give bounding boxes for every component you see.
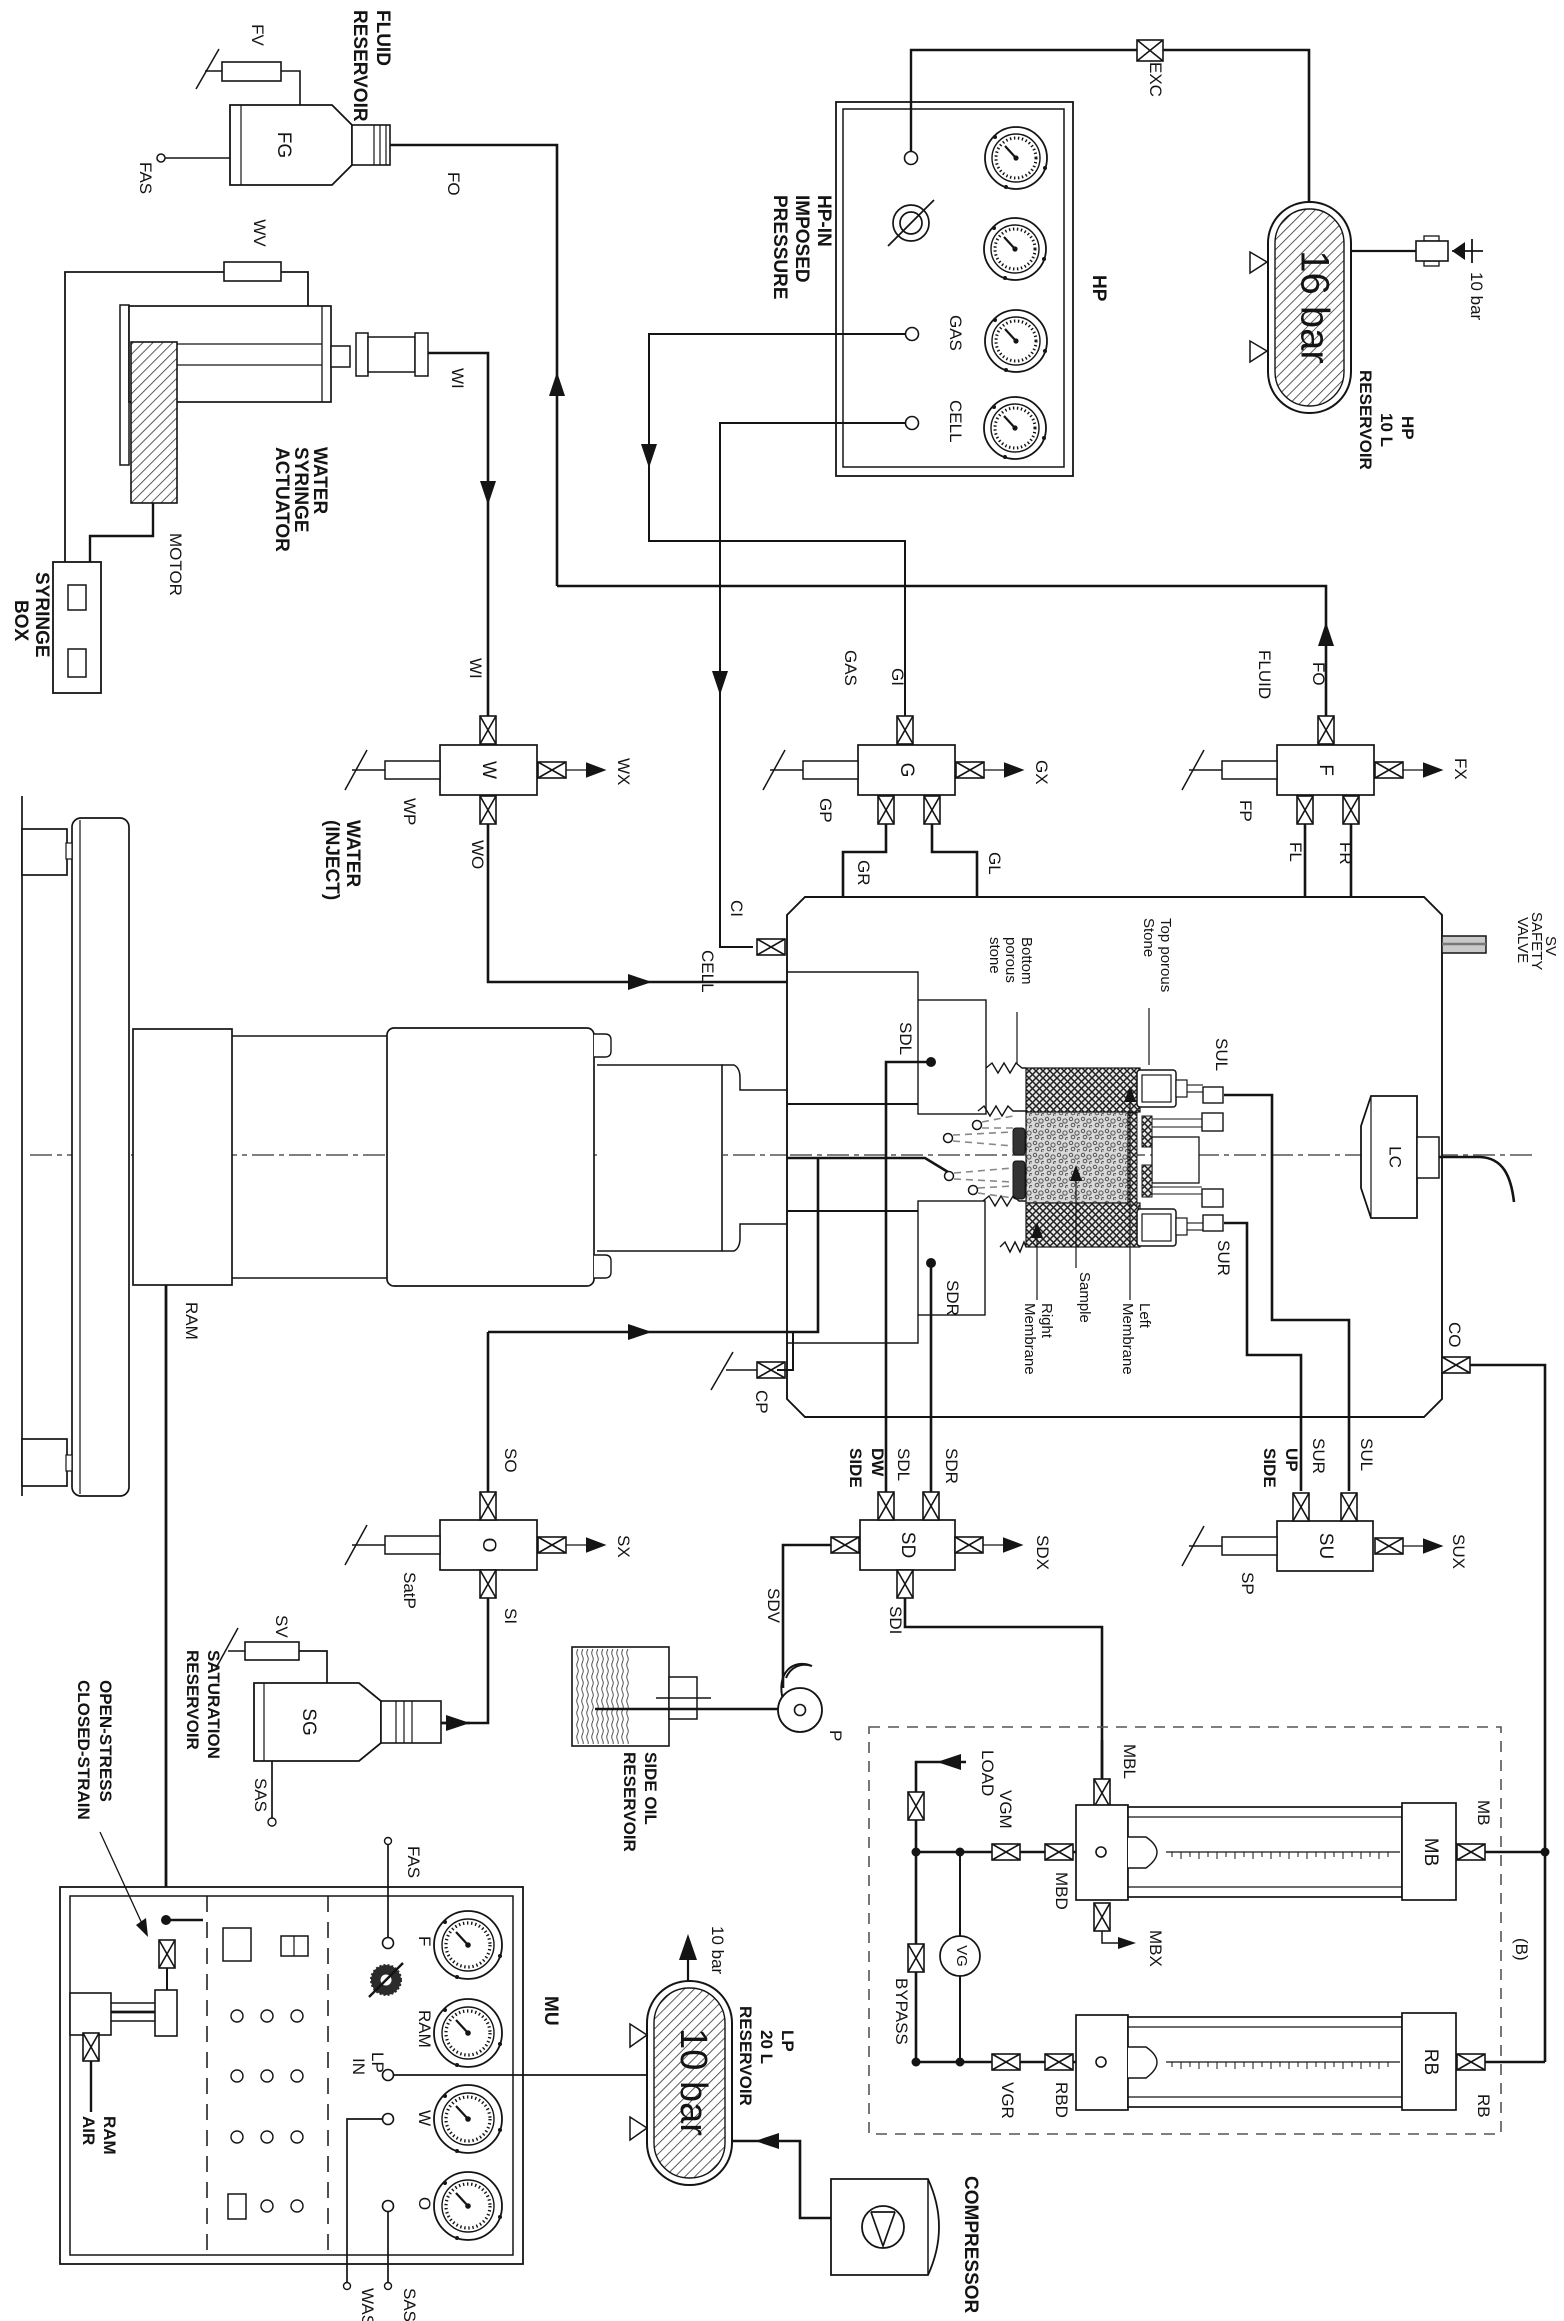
valve WI	[480, 716, 496, 744]
LP 20L reservoir (10 bar)	[647, 1981, 732, 2185]
svg-text:MBD: MBD	[1052, 1872, 1071, 1910]
ram tie rod	[21, 796, 23, 1496]
spring seal bottom	[983, 1196, 1026, 1206]
pump P	[778, 1664, 822, 1732]
svg-text:WV: WV	[250, 219, 269, 247]
svg-text:BYPASS: BYPASS	[892, 1978, 911, 2045]
svg-text:FLUID: FLUID	[1255, 650, 1274, 699]
plug SatP	[345, 1525, 440, 1565]
valve FX	[1375, 762, 1403, 778]
valve block SU	[1277, 1521, 1373, 1571]
valve block O	[440, 1520, 537, 1570]
svg-text:Membrane: Membrane	[1119, 1303, 1136, 1375]
valve GX	[956, 762, 984, 778]
wire SX exhaust	[566, 1544, 604, 1546]
svg-text:RAM: RAM	[415, 2010, 434, 2048]
wire WX exhaust	[566, 769, 604, 771]
svg-text:HP: HP	[1088, 275, 1109, 302]
valve WV	[224, 262, 281, 281]
valve RAM supply	[159, 1940, 175, 1968]
cell body	[787, 897, 1442, 1417]
LC cable	[1439, 1157, 1514, 1202]
svg-text:porous: porous	[1002, 937, 1019, 983]
relief triangle 1	[1250, 252, 1267, 273]
plug SP	[1182, 1526, 1277, 1566]
plug CP	[711, 1352, 757, 1390]
node SDR (take-off)	[926, 1258, 936, 1268]
valve SDI	[897, 1570, 913, 1598]
svg-text:WO: WO	[468, 840, 487, 869]
fluid reservoir FG	[230, 105, 390, 185]
bottom stone block right	[1142, 1165, 1152, 1197]
wire SUL (fitting to SU)	[1224, 1095, 1349, 1491]
node GR port circle	[969, 1186, 978, 1195]
svg-text:OPEN-STRESS: OPEN-STRESS	[96, 1680, 115, 1802]
wire MB to bus	[1485, 1851, 1545, 1854]
wire MBL	[1101, 1740, 1104, 1779]
wire RAM supply	[165, 1285, 168, 1920]
svg-text:LP: LP	[368, 2052, 387, 2073]
wire VG branch	[959, 1852, 961, 2062]
valve block F	[1277, 745, 1374, 795]
svg-text:SDR: SDR	[942, 1448, 961, 1484]
svg-text:Membrane: Membrane	[1021, 1303, 1038, 1375]
burette RB body	[1128, 2017, 1402, 2107]
svg-text:SDL: SDL	[894, 1448, 913, 1481]
valve RAM AIR	[83, 2033, 99, 2061]
wire FO from FG	[390, 145, 557, 586]
svg-text:WP: WP	[400, 798, 419, 825]
pointer sample	[1075, 1175, 1077, 1268]
valve WO	[480, 796, 496, 824]
valve MBX	[1094, 1903, 1110, 1931]
wire RAM stub	[166, 1919, 203, 1922]
svg-text:SatP: SatP	[400, 1572, 419, 1609]
burette MB end cap	[1402, 1803, 1456, 1900]
wire 10 bar inlet	[1452, 239, 1483, 263]
gauge HP1	[985, 127, 1047, 189]
wire WAS	[347, 2119, 383, 2282]
svg-text:IN: IN	[349, 2058, 368, 2075]
svg-text:SIDE: SIDE	[1260, 1448, 1279, 1488]
dashed enclosure B	[869, 1727, 1501, 2134]
spring seal top	[986, 1063, 1026, 1073]
burette MB header	[1076, 1805, 1128, 1900]
valve MBD	[1045, 1844, 1073, 1860]
gauge W	[434, 2085, 502, 2153]
vent 10 bar arrow	[679, 1934, 697, 1981]
node j1	[912, 1848, 921, 1857]
svg-text:FO: FO	[1309, 662, 1328, 686]
water syringe actuator cylinder	[120, 305, 331, 465]
fitting SUL	[1203, 1087, 1223, 1103]
svg-text:SDL: SDL	[896, 1022, 915, 1055]
valve block SD	[860, 1520, 955, 1570]
arrow down on CELL wire	[712, 671, 728, 695]
wire FV to FG	[281, 71, 300, 105]
svg-text:WATER: WATER	[342, 820, 363, 887]
wire SAS (MU)	[387, 2212, 389, 2282]
compressor	[831, 2179, 939, 2275]
wire gas manifold top	[916, 1851, 1076, 1854]
svg-text:Right: Right	[1038, 1303, 1055, 1339]
svg-text:SIDE OIL: SIDE OIL	[641, 1752, 660, 1825]
svg-text:SUL: SUL	[1357, 1438, 1376, 1471]
valve SUR	[1293, 1493, 1309, 1521]
wire FX exhaust	[1403, 769, 1441, 771]
pipe pair FL	[1152, 1119, 1202, 1194]
svg-text:O: O	[478, 1538, 499, 1553]
panel MU	[60, 1887, 523, 2264]
svg-text:G: G	[896, 763, 917, 778]
node SDL (take-off)	[926, 1057, 936, 1067]
ram end nut top	[22, 829, 67, 875]
valve GI	[897, 716, 913, 744]
wire RAM AIR	[90, 2061, 92, 2112]
wire pump suction	[595, 1708, 779, 1710]
wire GL to cell	[932, 824, 977, 1121]
node LP IN port	[383, 2070, 394, 2081]
pedestal outline upper	[787, 972, 918, 1000]
sample (stippled)	[1026, 1112, 1128, 1203]
air cylinder assembly	[70, 1990, 177, 2036]
svg-text:LC: LC	[1386, 1146, 1405, 1168]
svg-text:GR: GR	[854, 860, 873, 886]
gauge O	[434, 2172, 502, 2240]
svg-text:SDR: SDR	[943, 1280, 962, 1316]
svg-text:SIDE: SIDE	[846, 1448, 865, 1488]
wire MOTOR link	[90, 503, 153, 562]
right membrane (crosshatch band)	[1026, 1203, 1140, 1247]
svg-text:VGM: VGM	[996, 1790, 1015, 1829]
wire SDI to MBL	[905, 1598, 1102, 1779]
valve GL	[924, 796, 940, 824]
node oil port circle	[945, 1172, 954, 1181]
node RAM junction	[161, 1915, 171, 1925]
svg-text:Sample: Sample	[1076, 1272, 1093, 1323]
bottom cap block	[1137, 1209, 1203, 1246]
relief triangle LP2	[630, 2117, 647, 2140]
svg-text:FAS: FAS	[404, 1846, 423, 1878]
svg-text:SP: SP	[1238, 1572, 1257, 1595]
chamber box SDL	[918, 1000, 986, 1114]
valve GR	[878, 796, 894, 824]
svg-text:CI: CI	[727, 900, 746, 917]
svg-text:F: F	[415, 1936, 434, 1946]
pedestal outline lower	[787, 1315, 918, 1343]
wire gas manifold bottom	[916, 2061, 1076, 2064]
wire SDL	[886, 1062, 931, 1492]
svg-text:RBD: RBD	[1052, 2082, 1071, 2118]
valve SUL	[1341, 1493, 1357, 1521]
svg-text:FV: FV	[248, 24, 267, 46]
svg-text:RESERVOIR: RESERVOIR	[349, 10, 370, 122]
node SAS (SG)	[271, 1761, 273, 1818]
arrow right on SI feed	[446, 1715, 470, 1731]
left membrane side strip	[1128, 1113, 1137, 1205]
arrow right on SO wire	[628, 1324, 652, 1340]
arrow down on GAS wire	[641, 444, 657, 468]
node j4	[956, 2058, 965, 2067]
node GL port circle	[973, 1121, 982, 1130]
svg-text:(B): (B)	[1512, 1938, 1531, 1961]
svg-text:SATURATION: SATURATION	[204, 1650, 223, 1759]
svg-text:P: P	[826, 1730, 845, 1741]
pointer left membrane	[1129, 1095, 1131, 1300]
svg-text:GI: GI	[888, 668, 907, 686]
svg-text:RESERVOIR: RESERVOIR	[183, 1650, 202, 1750]
svg-text:SYRINGE: SYRINGE	[31, 572, 52, 658]
valve CI	[757, 939, 785, 955]
svg-text:SDV: SDV	[764, 1588, 783, 1624]
wire SI	[442, 1598, 488, 1723]
valve SO	[480, 1492, 496, 1520]
node GAS port	[906, 328, 919, 341]
wire compressor to LP	[732, 2141, 831, 2218]
fitting SUR	[1203, 1215, 1223, 1231]
svg-text:AIR: AIR	[79, 2116, 98, 2145]
svg-text:Top porous: Top porous	[1157, 918, 1174, 992]
svg-text:Left: Left	[1136, 1303, 1153, 1329]
valve SDR	[923, 1492, 939, 1520]
wire SO oil line	[488, 1158, 818, 1332]
spring seal top2	[978, 1106, 1026, 1116]
svg-text:MOTOR: MOTOR	[166, 533, 185, 596]
svg-text:SUR: SUR	[1214, 1240, 1233, 1276]
svg-text:10 bar: 10 bar	[672, 2028, 714, 2136]
svg-text:GP: GP	[816, 798, 835, 823]
ram mid cylinder	[232, 1036, 387, 1278]
svg-text:CELL: CELL	[946, 400, 965, 443]
gauge F	[434, 1911, 502, 1979]
wire MBX exhaust	[1102, 1931, 1118, 1943]
plug GP	[763, 750, 858, 790]
burette RB end cap	[1402, 2013, 1456, 2110]
fitting on HP reservoir inlet	[1351, 236, 1448, 266]
valve block G	[858, 745, 955, 795]
svg-text:ACTUATOR: ACTUATOR	[271, 447, 292, 552]
svg-text:GAS: GAS	[946, 315, 965, 351]
wire oil inject	[787, 1158, 948, 1172]
valve MB out	[1457, 1844, 1485, 1860]
svg-text:SDI: SDI	[886, 1606, 905, 1634]
svg-text:RESERVOIR: RESERVOIR	[1356, 370, 1375, 470]
svg-text:RB: RB	[1420, 2049, 1441, 2075]
node W port	[383, 2114, 394, 2125]
burette MB body	[1128, 1807, 1402, 1897]
svg-text:RB: RB	[1474, 2094, 1493, 2118]
svg-text:Bottom: Bottom	[1018, 937, 1035, 985]
fitting FL	[1202, 1113, 1223, 1131]
wire LP IN	[394, 2074, 647, 2076]
centre axis line	[30, 1154, 1532, 1156]
leader dashes WO	[953, 1132, 1013, 1146]
ram cylinder block	[133, 1029, 232, 1285]
arrow left on LP feed	[755, 2133, 779, 2149]
wire SG to SI	[441, 1722, 470, 1725]
svg-text:GL: GL	[985, 852, 1004, 875]
valve VGR	[992, 2054, 1020, 2070]
valve FL	[1297, 796, 1313, 824]
svg-text:SI: SI	[501, 1608, 520, 1624]
svg-text:VG: VG	[953, 1945, 970, 1967]
svg-text:GX: GX	[1032, 760, 1051, 785]
valve FR	[1343, 796, 1359, 824]
svg-text:UP: UP	[1282, 1448, 1301, 1472]
valve block W	[440, 745, 537, 795]
svg-text:FAS: FAS	[136, 162, 155, 194]
svg-text:CO: CO	[1445, 1322, 1464, 1348]
pedestal line upper heavy	[787, 1103, 918, 1105]
arrow right on WO wire	[628, 974, 652, 990]
pedestal line lower heavy	[787, 1210, 918, 1212]
svg-text:EXC: EXC	[1146, 62, 1165, 97]
svg-text:CP: CP	[752, 1390, 771, 1414]
svg-text:PRESSURE: PRESSURE	[769, 195, 790, 300]
side oil reservoir	[572, 1647, 711, 1746]
svg-text:MBX: MBX	[1146, 1930, 1165, 1967]
HP 10L reservoir (16 bar)	[1268, 202, 1351, 413]
node j2	[956, 1848, 965, 1857]
svg-text:WAS: WAS	[358, 2288, 377, 2321]
arrow LOAD	[937, 1754, 961, 1770]
svg-text:RAM: RAM	[100, 2116, 119, 2155]
svg-text:O: O	[415, 2197, 434, 2210]
node FAS	[165, 157, 230, 159]
wire EXC to HP reservoir	[1163, 50, 1309, 206]
centre axis inside cell	[790, 1154, 1430, 1156]
wire FO trunk to F block	[557, 586, 1326, 716]
burette RB header	[1076, 2015, 1128, 2110]
svg-text:RAM: RAM	[182, 1302, 201, 1340]
svg-text:(INJECT): (INJECT)	[321, 820, 342, 900]
node O port	[383, 2201, 394, 2212]
valve SI	[480, 1570, 496, 1598]
svg-text:SD: SD	[897, 1532, 918, 1558]
valve FV	[196, 49, 281, 89]
svg-text:SUX: SUX	[1449, 1534, 1468, 1569]
svg-text:10 L: 10 L	[1377, 413, 1396, 447]
svg-text:GAS: GAS	[841, 650, 860, 686]
svg-text:LOAD: LOAD	[978, 1750, 997, 1796]
svg-text:FG: FG	[273, 132, 294, 158]
valve SDV blockside	[831, 1537, 859, 1553]
gauge HP2	[984, 218, 1046, 280]
svg-text:WX: WX	[614, 758, 633, 785]
wire SDR	[930, 1263, 933, 1492]
svg-text:20 L: 20 L	[757, 2030, 776, 2064]
svg-text:SYRINGE: SYRINGE	[290, 447, 311, 533]
fitting FR	[1202, 1189, 1223, 1207]
svg-text:CELL: CELL	[698, 950, 717, 993]
spacer notch	[1152, 1137, 1199, 1183]
valve CO	[1442, 1357, 1470, 1373]
valve SUX	[1375, 1538, 1403, 1554]
svg-text:FLUID: FLUID	[372, 10, 393, 66]
svg-text:RESERVOIR: RESERVOIR	[620, 1752, 639, 1852]
svg-text:COMPRESSOR: COMPRESSOR	[960, 2176, 981, 2314]
valve SX	[538, 1537, 566, 1553]
pointer open-stress arrow	[100, 1832, 144, 1928]
wire CP internal	[777, 1332, 793, 1370]
node FAS port	[383, 1938, 394, 1949]
svg-text:WI: WI	[448, 368, 467, 389]
wire to air cylinder	[166, 1968, 168, 1995]
svg-text:SU: SU	[1315, 1533, 1336, 1559]
svg-text:10 bar: 10 bar	[1467, 272, 1486, 321]
svg-text:SUR: SUR	[1309, 1438, 1328, 1474]
panel HP-IN	[836, 102, 1073, 476]
wire WV right to cylinder	[281, 272, 308, 306]
plug FP	[1182, 750, 1277, 790]
regulator symbol (crossed circle)	[888, 200, 934, 246]
svg-text:RESERVOIR: RESERVOIR	[736, 2006, 755, 2106]
svg-text:SAS: SAS	[400, 2288, 419, 2321]
wire CO to burette bus	[1470, 1365, 1545, 1852]
valve VGM	[992, 1844, 1020, 1860]
svg-text:stone: stone	[986, 937, 1003, 974]
panel button grid	[231, 2010, 303, 2212]
scale ticks RB	[1172, 2062, 1388, 2069]
actuator plunger (hatched)	[131, 342, 177, 503]
svg-text:SG: SG	[298, 1708, 319, 1735]
panel switch 3	[228, 2194, 246, 2219]
ram end nut bottom	[22, 1439, 67, 1486]
bottom porous stone caps	[1013, 1128, 1025, 1199]
svg-text:WI: WI	[466, 658, 485, 679]
svg-text:IMPOSED: IMPOSED	[791, 195, 812, 283]
panel switch 1	[223, 1928, 251, 1961]
left membrane (crosshatch band)	[1026, 1068, 1140, 1112]
knob symbol	[369, 1963, 403, 1997]
gauge RAM	[434, 1999, 502, 2067]
arrow up on FO wire	[549, 372, 565, 396]
wire SUX exhaust	[1403, 1545, 1441, 1547]
wire FAS	[387, 1845, 389, 1937]
valve load line	[908, 1792, 924, 1820]
node CELL port	[906, 417, 919, 430]
panel switch 2	[281, 1936, 308, 1956]
svg-text:LP: LP	[778, 2030, 797, 2052]
svg-text:FR: FR	[1336, 842, 1355, 865]
svg-text:10 bar: 10 bar	[708, 1926, 727, 1975]
svg-text:Stone: Stone	[1140, 918, 1157, 957]
node j3	[912, 2058, 921, 2067]
chamber box SDR	[918, 1201, 985, 1315]
valve SV (saturation)	[216, 1628, 299, 1668]
svg-text:DW: DW	[868, 1448, 887, 1477]
svg-text:SDX: SDX	[1033, 1535, 1052, 1570]
top cap block	[1137, 1070, 1203, 1107]
svg-text:FL: FL	[1286, 842, 1305, 862]
wire SDX exhaust	[983, 1544, 1021, 1546]
gauge VG	[940, 1936, 980, 1976]
scale ticks MB	[1172, 1852, 1388, 1859]
svg-text:FX: FX	[1451, 758, 1470, 780]
wire WV left to syringe box	[65, 272, 224, 562]
wire WI from actuator	[428, 353, 488, 716]
wire GAS from panel to GI	[649, 334, 906, 716]
svg-text:SV: SV	[272, 1615, 291, 1638]
node bus top	[1541, 1848, 1550, 1857]
valve WX	[538, 762, 566, 778]
svg-text:MB: MB	[1420, 1838, 1441, 1867]
arrow down on WI wire	[480, 481, 496, 505]
wire GR to cell	[843, 824, 968, 1190]
leader dashes GL	[982, 1116, 1013, 1128]
pointer right membrane	[1036, 1230, 1038, 1300]
gauge HP4	[984, 397, 1046, 459]
